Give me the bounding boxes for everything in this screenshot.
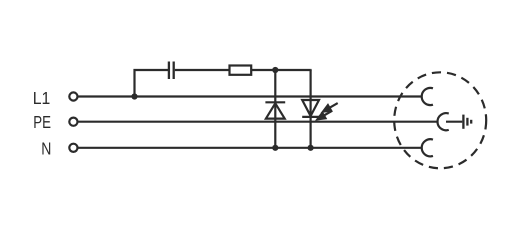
- diode V1: [265, 102, 285, 118]
- node on N line, branch 1 (junction dot): [272, 145, 278, 151]
- svg-text:N: N: [41, 140, 51, 159]
- wire resistor to branch corner: [251, 69, 310, 71]
- wire branch 1 (vertical through diode): [274, 70, 276, 148]
- capacitor C1: [169, 62, 174, 80]
- wire riser from L1 to top branch: [135, 70, 169, 97]
- wire PE: [78, 121, 438, 123]
- earth symbol: [463, 115, 471, 129]
- svg-text:L1: L1: [33, 88, 51, 108]
- node on top wire (junction dot): [272, 67, 278, 73]
- svg-text:PE: PE: [33, 113, 51, 132]
- resistor R1: [230, 66, 252, 75]
- wire L1: [78, 95, 422, 97]
- wire top corner to branch 2: [311, 69, 312, 71]
- node on N line, branch 2 (junction dot): [308, 145, 314, 151]
- photodiode V2 light arrows: [317, 103, 337, 119]
- socket contact L1: [422, 88, 433, 105]
- terminal PE: [69, 118, 77, 126]
- wire branch 2 (vertical through photodiode): [310, 70, 312, 148]
- socket contact N: [422, 139, 433, 156]
- socket contact PE: [438, 113, 449, 130]
- terminal N: [69, 144, 77, 152]
- wire PE contact to earth: [446, 121, 462, 123]
- node on L1 (junction dot): [131, 93, 137, 99]
- wire N: [78, 147, 422, 149]
- wire capacitor to resistor: [175, 69, 230, 71]
- photodiode V2: [302, 100, 319, 117]
- plug outline (dashed circle): [394, 72, 486, 168]
- terminal L1: [69, 92, 77, 100]
